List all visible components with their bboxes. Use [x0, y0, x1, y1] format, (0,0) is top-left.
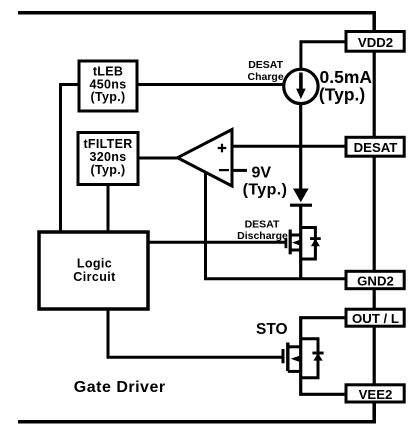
right rail segment VEE2-bottom	[373, 401, 376, 421]
right rail segment GND2-OUT/L	[373, 288, 376, 310]
svg-text:Circuit: Circuit	[73, 270, 116, 284]
wire tFILTER right to comparator output	[138, 157, 180, 160]
label DESAT Discharge	[237, 219, 288, 242]
wire Q2 drain to OUT/L and source to VEE2	[301, 318, 346, 395]
wire tLEB left to Logic Circuit top	[61, 85, 80, 234]
svg-text:Charge: Charge	[248, 71, 284, 83]
svg-text:GND2: GND2	[357, 274, 394, 289]
wire tLEB right to current source I1	[137, 83, 285, 86]
svg-text:STO: STO	[256, 321, 288, 338]
pin box DESAT	[346, 137, 404, 156]
body diode of Q1	[301, 228, 321, 260]
svg-text:Gate Driver: Gate Driver	[74, 379, 166, 396]
value label 0.5mA (Typ.)	[319, 67, 372, 105]
wire tFILTER bottom to Logic Circuit top	[107, 185, 110, 234]
svg-text:OUT / L: OUT / L	[352, 311, 399, 326]
pin box OUT/L	[346, 309, 404, 326]
svg-text:DESAT: DESAT	[245, 219, 280, 231]
svg-text:VEE2: VEE2	[359, 387, 393, 402]
svg-text:320ns: 320ns	[90, 150, 127, 164]
svg-text:DESAT: DESAT	[354, 140, 398, 155]
block Logic Circuit	[39, 232, 148, 309]
block tLEB 450ns	[79, 61, 137, 111]
svg-text:9V: 9V	[252, 165, 272, 182]
bottom boundary bar	[18, 402, 374, 422]
diode D1 DESAT blocking	[290, 189, 312, 206]
label DESAT Charge	[248, 59, 284, 83]
transistor Q1 DESAT discharge MOSFET	[286, 230, 302, 255]
svg-text:(Typ.): (Typ.)	[91, 90, 126, 104]
pin box VDD2	[346, 32, 404, 52]
wire Logic Circuit to Q2 gate	[108, 309, 284, 358]
svg-text:(Typ.): (Typ.)	[91, 163, 126, 177]
svg-text:VDD2: VDD2	[358, 35, 393, 50]
transistor Q2 STO MOSFET	[283, 343, 301, 372]
body diode of Q2	[301, 339, 324, 378]
wire comparator bottom to GND2 rail	[206, 171, 347, 279]
svg-text:Logic: Logic	[77, 256, 112, 270]
top boundary bar	[18, 13, 374, 33]
svg-text:(Typ.): (Typ.)	[243, 182, 288, 199]
value label 9V (Typ.)	[243, 165, 288, 199]
wire comparator inverting input stub to 9V reference	[232, 169, 247, 172]
wire comparator noninverting input to DESAT pin	[232, 145, 346, 148]
svg-text:(Typ.): (Typ.)	[319, 85, 365, 105]
pin box VEE2	[346, 385, 404, 402]
right rail segment DESAT-GND2	[373, 155, 376, 272]
block tFILTER 320ns	[78, 133, 138, 185]
wire Logic Circuit to Q1 gate	[148, 241, 287, 244]
right rail segment VDD2-DESAT	[373, 50, 376, 138]
svg-text:DESAT: DESAT	[248, 59, 283, 71]
svg-text:Discharge: Discharge	[237, 230, 288, 242]
wire VDD2 to current source I1 top	[301, 42, 346, 71]
op-amp U1 DESAT comparator	[178, 130, 233, 187]
current source I1 DESAT charge 0.5mA	[284, 69, 318, 103]
wire diode D1 cathode through Q1 to GND2 node	[299, 205, 302, 279]
wire current source I1 bottom to diode D1 / node DESAT	[299, 103, 302, 190]
pin box GND2	[346, 271, 404, 288]
right rail segment OUT/L-VEE2	[373, 325, 376, 386]
